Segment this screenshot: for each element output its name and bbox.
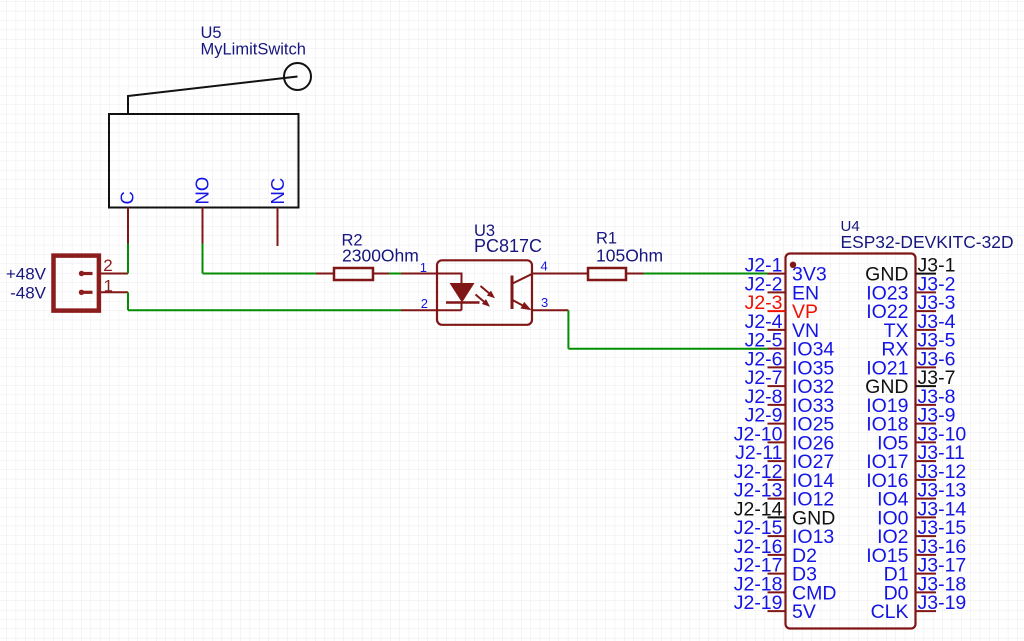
U4 pin J3-2 stub <box>916 291 936 293</box>
wire opto pin 3 to J2-5 <box>568 348 767 350</box>
U4 pin J2-1 stub <box>768 273 786 275</box>
U3 emitter line with arrow <box>513 300 534 314</box>
U3 collector line <box>513 274 533 284</box>
U4 pin J3-18 stub <box>916 591 936 593</box>
svg-text:ESP32-DEVKITC-32D: ESP32-DEVKITC-32D <box>841 232 1014 252</box>
svg-text:1: 1 <box>104 277 113 296</box>
U4 pin J3-12 stub <box>916 479 936 481</box>
U3 LED anode triangle <box>450 283 475 303</box>
svg-text:-48V: -48V <box>10 284 47 303</box>
connector pin 1 contact <box>79 290 93 295</box>
U3 pin 1 lead <box>401 274 462 284</box>
connector pin 2 stub <box>101 273 128 275</box>
U4 pin J2-10 stub <box>768 441 786 443</box>
U4 pin J2-19 stub <box>768 610 786 612</box>
wire -48V vertical <box>127 292 129 310</box>
U4 pin J3-15 stub <box>916 535 936 537</box>
resistor R2 <box>334 268 373 280</box>
U4 pin J3-4 stub <box>916 329 936 331</box>
U4 pin J2-9 stub <box>768 423 786 425</box>
U4 pin J2-16 stub <box>768 554 786 556</box>
limit switch U5 lever arm <box>128 77 298 115</box>
U4 pin J3-16 stub <box>916 554 936 556</box>
svg-text:U5: U5 <box>201 24 222 42</box>
R2 left stub <box>316 273 334 275</box>
svg-text:NC: NC <box>267 178 288 205</box>
pin NC stub <box>277 208 279 247</box>
svg-text:4: 4 <box>541 259 548 274</box>
limit switch U5 roller circle <box>284 63 311 90</box>
ESP32 module U4 body <box>786 254 916 629</box>
svg-text:J2-19: J2-19 <box>734 592 783 614</box>
wire C net vertical <box>127 244 129 274</box>
svg-text:MyLimitSwitch: MyLimitSwitch <box>201 41 306 59</box>
U4 pin J2-5 stub <box>768 348 786 350</box>
svg-text:2: 2 <box>103 256 112 275</box>
U4 pin J3-9 stub <box>916 423 936 425</box>
U3 LED cathode bar <box>446 301 480 304</box>
resistor R1 <box>588 268 626 280</box>
svg-text:PC817C: PC817C <box>474 236 542 256</box>
U4 pin J2-11 stub <box>768 460 786 462</box>
U3 pin 4 lead and wire to R1 <box>532 273 588 275</box>
U4 pin J3-1 stub <box>916 273 936 275</box>
U4 pin J3-17 stub <box>916 573 936 575</box>
R1 right stub <box>626 273 644 275</box>
pin C stub <box>127 208 129 244</box>
U4 pin J2-13 stub <box>768 498 786 500</box>
svg-text:CLK: CLK <box>871 601 909 623</box>
pin NO stub <box>202 208 204 244</box>
U4 pin J3-7 stub <box>916 385 936 387</box>
U4 pin J3-11 stub <box>916 460 936 462</box>
U4 pin J3-3 stub <box>916 310 936 312</box>
U3 light arrow 1 <box>478 284 497 301</box>
svg-text:+48V: +48V <box>6 265 47 284</box>
U4 pin J3-10 stub <box>916 441 936 443</box>
U3 pin 3 lead <box>532 309 568 311</box>
svg-text:C: C <box>117 191 138 204</box>
U4 pin J3-13 stub <box>916 498 936 500</box>
U4 pin J2-12 stub <box>768 479 786 481</box>
U4 pin J3-14 stub <box>916 516 936 518</box>
svg-text:2: 2 <box>421 296 428 311</box>
U4 pin J2-3 stub <box>768 310 786 312</box>
U4 pin J3-5 stub <box>916 348 936 350</box>
svg-text:1: 1 <box>420 260 427 275</box>
limit switch U5 body <box>109 114 299 208</box>
svg-text:5V: 5V <box>792 601 816 623</box>
wire NO net horizontal to R2 <box>203 273 317 275</box>
U4 pin J3-8 stub <box>916 404 936 406</box>
wire R2 to opto pin 1 <box>389 273 401 275</box>
svg-text:105Ohm: 105Ohm <box>596 246 663 266</box>
U3 phototransistor base bar <box>511 276 514 310</box>
U4 pin J2-14 stub <box>768 516 786 518</box>
U4 pin J2-17 stub <box>768 573 786 575</box>
U4 pin J2-4 stub <box>768 329 786 331</box>
U4 pin J3-19 stub <box>916 610 936 612</box>
U4 pin J2-6 stub <box>768 366 786 368</box>
wire NO net vertical <box>202 244 204 274</box>
U3 light arrow 2 <box>473 292 492 309</box>
U4 pin J2-15 stub <box>768 535 786 537</box>
U4 pin J2-7 stub <box>768 385 786 387</box>
svg-text:NO: NO <box>192 177 213 205</box>
svg-text:3: 3 <box>541 295 548 310</box>
opto-coupler U3 body <box>437 260 532 325</box>
U4 pin J2-18 stub <box>768 591 786 593</box>
svg-text:2300Ohm: 2300Ohm <box>342 246 419 266</box>
connector pin 1 stub <box>101 291 128 293</box>
U4 pin 1 dot <box>790 262 796 268</box>
wire R1 to J2-1 <box>644 273 768 275</box>
U4 pin J2-2 stub <box>768 291 786 293</box>
svg-text:J3-19: J3-19 <box>918 592 967 614</box>
R2 right stub <box>373 273 389 275</box>
U4 pin J2-8 stub <box>768 404 786 406</box>
connector pin 2 contact <box>79 271 93 276</box>
U4 pin J3-6 stub <box>916 366 936 368</box>
power connector body <box>54 256 99 311</box>
wire opto pin 3 down <box>567 310 569 349</box>
U3 pin 2 lead <box>401 303 462 311</box>
wire -48V horizontal to opto pin 2 <box>128 309 401 311</box>
